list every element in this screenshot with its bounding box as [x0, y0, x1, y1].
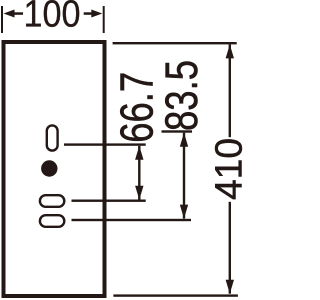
svg-text:100: 100 [24, 0, 81, 36]
svg-text:66.7: 66.7 [111, 72, 163, 143]
svg-text:83.5: 83.5 [156, 60, 207, 131]
svg-text:410: 410 [207, 138, 244, 200]
